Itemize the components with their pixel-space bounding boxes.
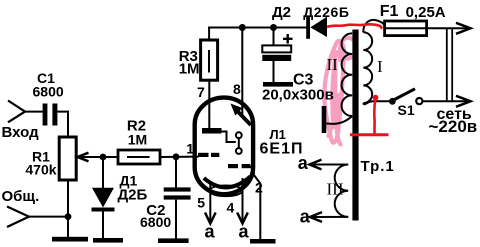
svg-text:a: a xyxy=(300,207,311,227)
svg-text:F1: F1 xyxy=(380,3,399,20)
svg-text:a: a xyxy=(205,221,216,241)
svg-text:8: 8 xyxy=(233,81,241,97)
svg-text:1: 1 xyxy=(186,141,194,157)
svg-text:a: a xyxy=(298,153,309,173)
svg-text:II: II xyxy=(327,55,339,74)
svg-text:Вход: Вход xyxy=(2,124,40,141)
svg-text:III: III xyxy=(327,180,344,199)
svg-text:470k: 470k xyxy=(25,162,56,178)
svg-text:6800: 6800 xyxy=(33,83,64,99)
svg-text:a: a xyxy=(239,221,250,241)
svg-text:2: 2 xyxy=(255,180,263,196)
svg-text:Д2: Д2 xyxy=(272,4,291,21)
svg-text:5: 5 xyxy=(197,195,205,211)
svg-text:0,25A: 0,25A xyxy=(406,4,446,21)
svg-text:S1: S1 xyxy=(398,102,415,118)
svg-text:7: 7 xyxy=(197,84,205,100)
svg-text:~220в: ~220в xyxy=(429,117,478,136)
svg-text:Д2Б: Д2Б xyxy=(118,187,148,204)
svg-text:Тр.1: Тр.1 xyxy=(361,158,395,175)
svg-text:20,0x300в: 20,0x300в xyxy=(262,87,334,104)
svg-text:1M: 1M xyxy=(128,132,147,148)
svg-text:Д226Б: Д226Б xyxy=(303,4,349,20)
svg-text:4: 4 xyxy=(227,200,235,216)
svg-text:I: I xyxy=(377,57,383,76)
svg-text:Общ.: Общ. xyxy=(2,188,40,205)
svg-text:1M: 1M xyxy=(179,61,200,78)
svg-text:6800: 6800 xyxy=(140,214,171,230)
